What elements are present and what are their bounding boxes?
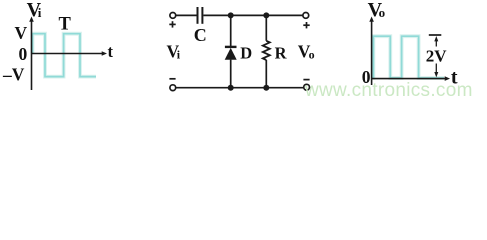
- resistor R (wire, zigzag, wire): [263, 15, 270, 87]
- bottom wire: [176, 87, 303, 89]
- left graph y-axis: [29, 17, 34, 91]
- svg-text:T: T: [59, 14, 72, 34]
- junction dot top node 1 (diode): [228, 12, 234, 18]
- svg-text:V: V: [15, 23, 28, 43]
- svg-text:o: o: [309, 48, 315, 62]
- svg-text:0: 0: [19, 44, 28, 64]
- diode D (wire, cathode bar, triangle): [225, 15, 237, 87]
- terminal bottom-left (input -): [170, 85, 176, 91]
- 2V dimension marker top bar: [429, 34, 442, 36]
- right graph y-axis: [369, 17, 374, 86]
- label Vo (right graph title): [368, 0, 386, 21]
- svg-text:o: o: [379, 5, 386, 20]
- svg-text:D: D: [240, 44, 252, 63]
- svg-text:i: i: [177, 48, 181, 62]
- 2V dimension upper arrow (pointing up): [434, 36, 438, 47]
- terminal top-right (output +): [303, 13, 309, 19]
- capacitor C plates: [198, 7, 203, 24]
- wire top (capacitor to right terminal): [203, 14, 303, 16]
- label Vi (left graph title): [27, 0, 42, 21]
- junction dot bottom node 1: [228, 85, 234, 91]
- terminal top-left (input +): [170, 13, 176, 19]
- svg-text:2V: 2V: [426, 46, 448, 65]
- right graph x-axis: [372, 76, 450, 81]
- svg-text:www.cntronics.com: www.cntronics.com: [304, 80, 473, 101]
- wire top-left (terminal to capacitor): [176, 14, 197, 16]
- label Vi (circuit input voltage): [167, 41, 181, 61]
- svg-text:R: R: [275, 44, 288, 63]
- input square waveform (cyan): [33, 34, 97, 77]
- plus sign top-left: [169, 21, 175, 27]
- 2V dimension lower arrow (pointing down): [434, 64, 438, 78]
- svg-text:t: t: [108, 42, 114, 61]
- output square waveform (cyan): [372, 36, 444, 78]
- left graph x-axis: [32, 51, 108, 56]
- junction dot bottom node 2: [263, 85, 269, 91]
- svg-text:–V: –V: [2, 64, 25, 84]
- minus sign bottom-left: [169, 78, 175, 80]
- minus sign bottom-right: [303, 79, 309, 81]
- terminal bottom-right (output -): [304, 84, 310, 90]
- label Vo (circuit output voltage): [298, 41, 315, 61]
- plus sign top-right: [303, 22, 309, 28]
- svg-text:i: i: [38, 5, 42, 20]
- svg-text:C: C: [194, 25, 207, 45]
- junction dot top node 2 (resistor): [263, 12, 269, 18]
